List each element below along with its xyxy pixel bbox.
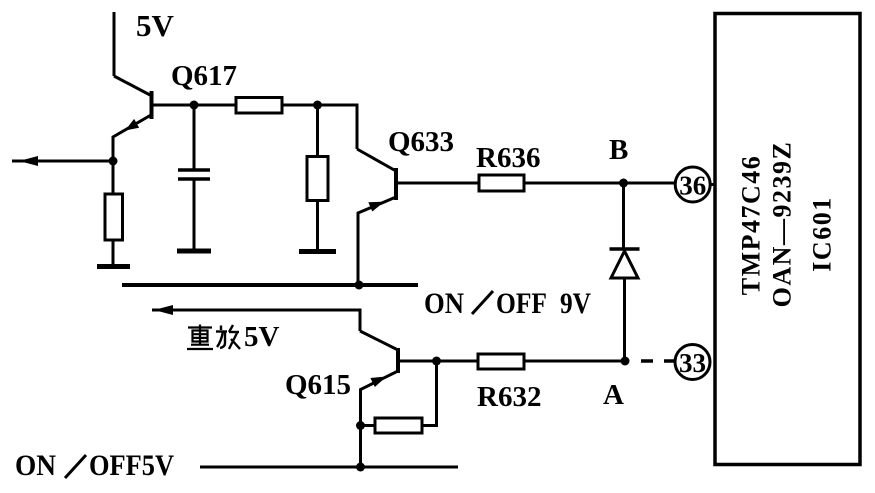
svg-text:5V: 5V <box>244 321 280 353</box>
wire Q617 base to resistor <box>153 104 236 107</box>
node (after base resistor) <box>313 101 322 110</box>
node (emitter to bottom line) <box>356 463 365 472</box>
ground (under pulldown resistor) <box>299 249 336 254</box>
svg-text:B: B <box>609 134 628 166</box>
svg-text:ON: ON <box>15 449 56 482</box>
label ON/OFF 9V <box>424 287 591 320</box>
wire Q615 base <box>400 360 478 363</box>
wire node to Q633 collector <box>318 105 358 149</box>
node (Q615 base) <box>432 357 441 366</box>
label CJK fang (replay) <box>216 325 240 349</box>
resistor R636 <box>479 175 524 191</box>
svg-text:5V: 5V <box>136 8 175 43</box>
arrow line (replay 5V feed) <box>152 305 360 331</box>
svg-text:R636: R636 <box>476 142 540 174</box>
node (emitter to rail junction) <box>355 281 364 290</box>
node (emitter junction) <box>109 157 118 166</box>
terminal pin 33 <box>675 345 710 380</box>
svg-text:TMP47C46: TMP47C46 <box>737 155 766 296</box>
svg-text:Q615: Q615 <box>285 369 351 401</box>
label ON/OFF5V <box>15 449 174 482</box>
svg-text:A: A <box>603 379 624 411</box>
node B <box>619 179 628 188</box>
svg-text:R632: R632 <box>477 381 541 413</box>
svg-text:IC601: IC601 <box>808 196 837 271</box>
ground (under emitter resistor) <box>97 264 130 269</box>
wire resistor to node <box>282 104 318 107</box>
terminal pin 36 <box>675 167 715 202</box>
svg-text:OFF: OFF <box>496 287 547 320</box>
capacitor C <box>178 105 210 250</box>
svg-text:OFF5V: OFF5V <box>89 449 174 482</box>
resistor (Q617 emitter, vertical) <box>105 161 123 265</box>
transistor Q615 <box>360 331 400 466</box>
resistor R632 <box>478 354 524 369</box>
wire Q633 base to R636 <box>398 182 479 185</box>
node A junction <box>621 357 630 366</box>
transistor Q633 <box>357 149 398 285</box>
svg-text:33: 33 <box>679 348 706 378</box>
wire mid horizontal (Q633 emitter rail) <box>122 283 418 287</box>
IC601 box <box>715 14 860 465</box>
dashed wire to terminal 33 <box>641 359 674 363</box>
resistor (Q617 base, horizontal) <box>236 98 282 114</box>
svg-text:36: 36 <box>679 171 706 201</box>
svg-text:ON: ON <box>424 287 464 320</box>
slash of ON/OFF5V <box>65 455 86 478</box>
label CJK zhong (replay) <box>187 325 213 350</box>
svg-text:Q633: Q633 <box>388 126 454 158</box>
wire R636 to terminal 36 <box>524 182 674 185</box>
resistor (Q615 feedback, horizontal) <box>361 361 437 433</box>
resistor (Q633 base pulldown, vertical) <box>307 105 328 250</box>
diode D <box>610 183 640 361</box>
transistor Q617 <box>113 76 154 161</box>
node (feedback left junction) <box>356 421 365 430</box>
arrow out left <box>12 156 113 166</box>
svg-text:Q617: Q617 <box>171 60 237 92</box>
svg-text:OAN—9239Z: OAN—9239Z <box>768 141 797 308</box>
svg-text:9V: 9V <box>560 287 591 320</box>
wire bottom line <box>200 466 458 469</box>
wire R632 to node A <box>524 360 625 363</box>
ground (under capacitor) <box>177 249 211 254</box>
wire 5V supply vertical <box>113 12 116 76</box>
slash of ON/OFF 9V <box>472 291 493 314</box>
node (capacitor top) <box>190 101 199 110</box>
